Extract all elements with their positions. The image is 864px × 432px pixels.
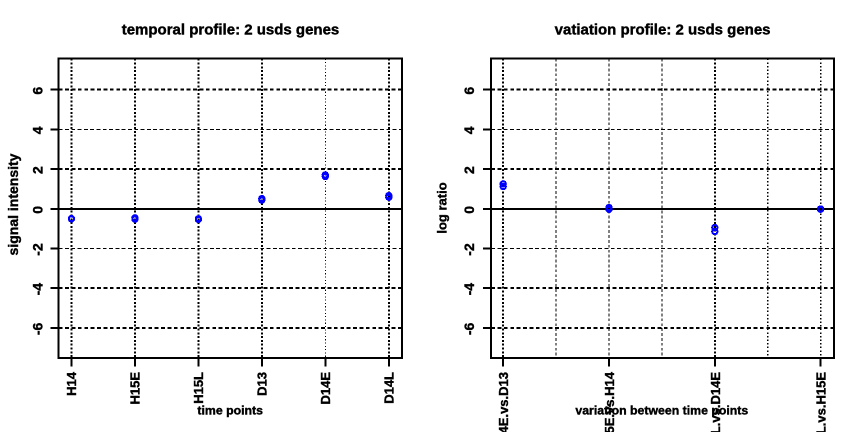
right y tick numbers	[461, 87, 477, 336]
svg-text:variation between time points: variation between time points	[575, 404, 748, 418]
svg-text:vatiation profile: 2 usds gene: vatiation profile: 2 usds genes	[555, 21, 771, 38]
svg-text:time points: time points	[197, 404, 263, 418]
svg-text:4: 4	[29, 126, 45, 134]
svg-text:D14E: D14E	[318, 372, 333, 405]
svg-text:temporal profile: 2 usds genes: temporal profile: 2 usds genes	[122, 21, 340, 38]
left axis ticks	[51, 90, 389, 367]
svg-text:2: 2	[461, 166, 477, 174]
left horizontal gridlines	[59, 90, 402, 328]
svg-text:-6: -6	[29, 322, 45, 335]
right horizontal gridlines	[491, 90, 834, 328]
left vertical dotted gridlines	[71, 59, 388, 358]
svg-text:6: 6	[461, 87, 477, 95]
left data points (2 genes, blue open circles)	[69, 172, 392, 222]
right plot box	[491, 59, 834, 358]
svg-text:H15L: H15L	[191, 372, 206, 404]
right vertical gridlines	[503, 59, 820, 358]
svg-text:6: 6	[29, 87, 45, 95]
svg-text:0: 0	[29, 206, 45, 214]
svg-text:D13: D13	[254, 372, 269, 396]
left y tick numbers	[29, 87, 45, 336]
svg-text:-4: -4	[461, 283, 477, 296]
svg-text:-2: -2	[461, 243, 477, 256]
svg-text:H14: H14	[64, 371, 79, 396]
svg-text:H15E.vs.H14: H15E.vs.H14	[602, 371, 617, 432]
svg-text:H15L.vs.H15E: H15L.vs.H15E	[814, 372, 829, 432]
svg-text:4: 4	[461, 126, 477, 134]
svg-text:signal intensity: signal intensity	[5, 153, 21, 255]
left zero line	[59, 208, 402, 210]
svg-text:D14E.vs.D13: D14E.vs.D13	[496, 372, 511, 432]
svg-text:2: 2	[29, 166, 45, 174]
right zero line	[491, 208, 834, 210]
right axis ticks	[483, 90, 821, 367]
svg-text:log ratio: log ratio	[434, 182, 449, 233]
svg-text:-6: -6	[461, 322, 477, 335]
left title	[122, 21, 340, 38]
right x tick labels (clipped at bottom)	[496, 371, 828, 432]
svg-text:0: 0	[461, 206, 477, 214]
right data points	[501, 181, 824, 234]
svg-text:-4: -4	[29, 283, 45, 296]
svg-text:-2: -2	[29, 243, 45, 256]
left x tick labels	[64, 371, 396, 404]
svg-text:D14L: D14L	[381, 372, 396, 404]
svg-text:H15E: H15E	[128, 372, 143, 405]
left plot box	[59, 59, 402, 358]
svg-text:D14L.vs.D14E: D14L.vs.D14E	[708, 372, 723, 432]
